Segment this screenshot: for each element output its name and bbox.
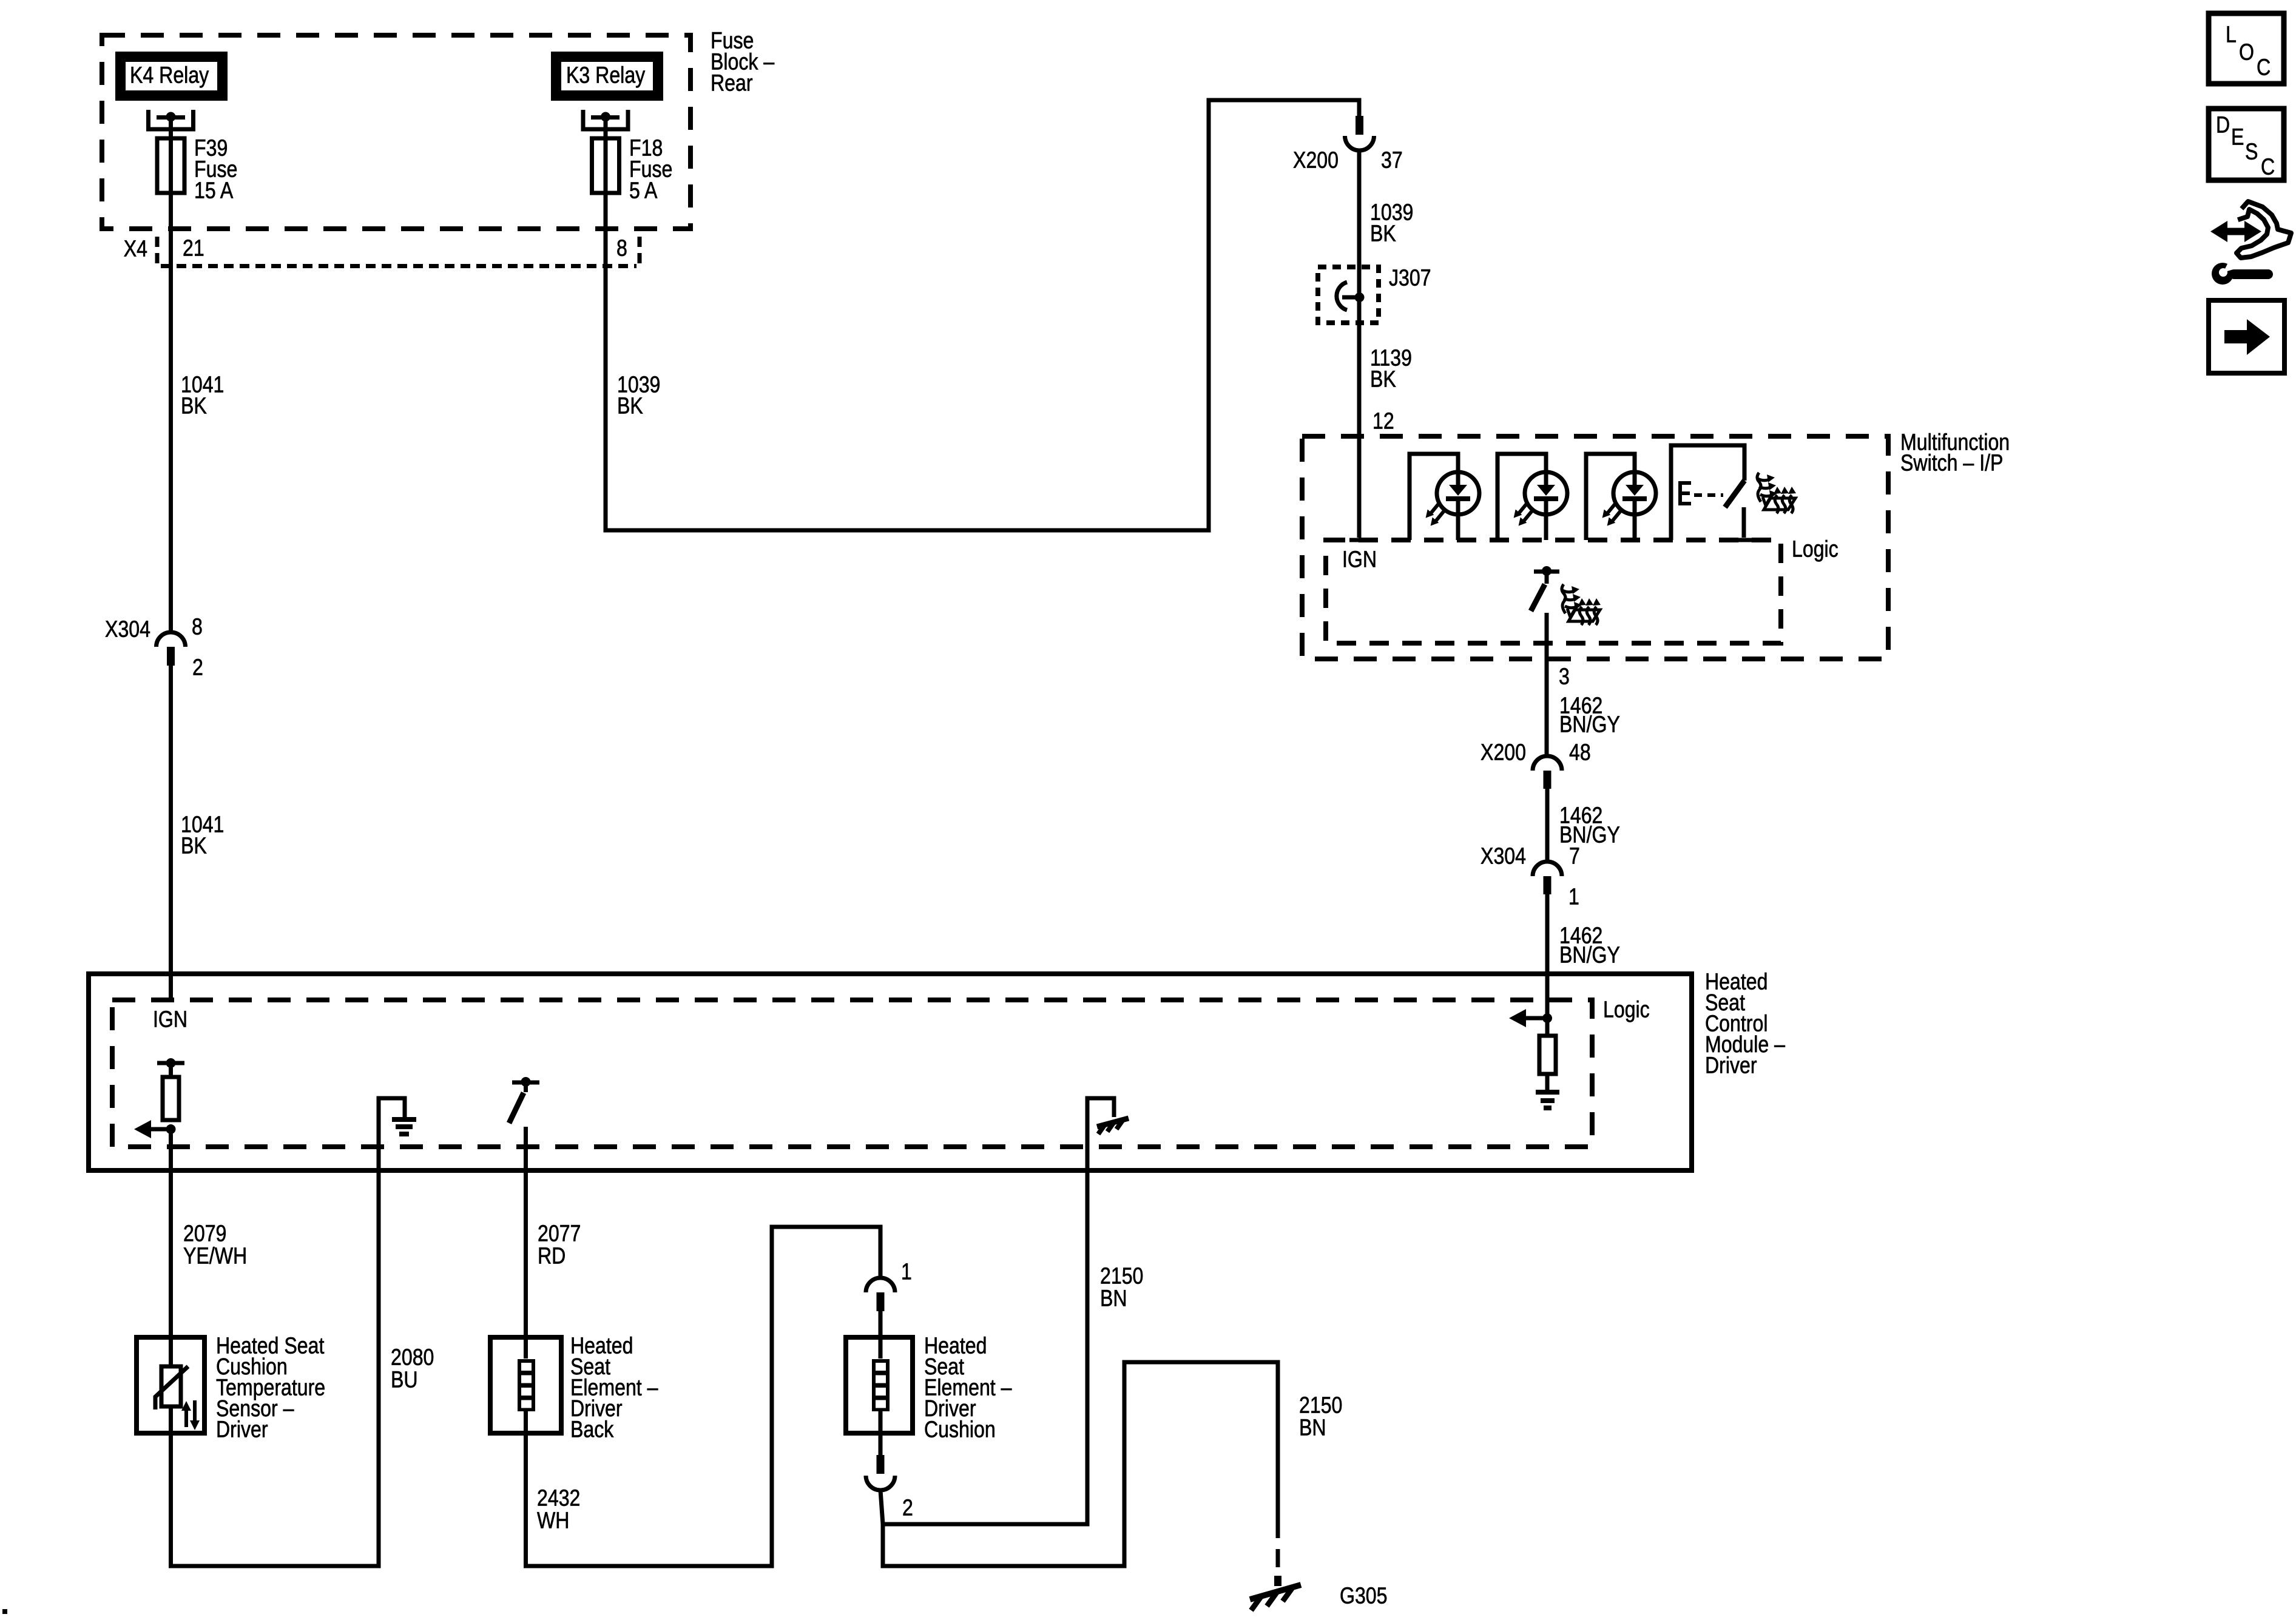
wire multifunction pin 3 to X200 pin 48 [1545,613,1549,756]
icon hand with double arrow and wrench [2210,201,2291,285]
svg-text:IGN: IGN [1342,547,1377,572]
wire 2079 YE/WH module to temp sensor [169,1129,173,1337]
svg-text:WH: WH [537,1508,569,1533]
LED 1 (multifunction switch) [1410,454,1479,540]
svg-text:J307: J307 [1389,265,1431,291]
svg-text:1: 1 [1568,884,1579,910]
svg-text:RD: RD [538,1243,566,1269]
heating element symbol (driver cushion) [879,1337,883,1359]
svg-text:YE/WH: YE/WH [183,1243,247,1269]
svg-text:7: 7 [1569,843,1580,869]
icon arrow box [2209,300,2284,373]
svg-text:BK: BK [1370,221,1396,246]
svg-text:2150: 2150 [1100,1263,1143,1289]
svg-text:1: 1 [901,1259,912,1284]
chassis ground (module internal) [1087,1098,1114,1170]
svg-text:BN/GY: BN/GY [1559,822,1620,848]
svg-text:BN/GY: BN/GY [1559,942,1620,968]
svg-text:2077: 2077 [538,1221,581,1246]
svg-text:O: O [2239,39,2254,65]
svg-text:Back: Back [570,1417,614,1442]
svg-text:21: 21 [183,235,204,261]
svg-text:X200: X200 [1293,147,1339,173]
svg-text:L: L [2226,22,2237,47]
svg-text:BN: BN [1299,1415,1326,1440]
icon DESC box [2209,109,2284,180]
svg-text:BK: BK [617,393,643,419]
wire 1039 BK X200 to J307 [1357,149,1362,538]
switch (module internal) [512,1081,539,1085]
ground (module internal) [379,1098,405,1170]
ground G305 [1274,1576,1281,1586]
connector pin 2 (cushion element) [879,1433,883,1455]
wire K3 relay to fuse F18 [604,117,608,193]
svg-text:37: 37 [1381,147,1403,173]
svg-text:C: C [2257,55,2271,80]
multifunction switch - I/P dashed box [1302,436,1888,659]
wire 2080 BU temp sensor to module [171,1173,379,1566]
wire 1041 BK fuse F39 to X304 [169,193,173,633]
wire 2150 BN to ground G305 [883,1362,1278,1566]
heater icon (logic switch) [1562,584,1601,625]
logic dashed box (module) [112,1000,1592,1147]
svg-text:3: 3 [1559,664,1570,689]
svg-text:K4 Relay: K4 Relay [130,62,209,88]
svg-text:48: 48 [1569,740,1591,765]
svg-text:BU: BU [391,1367,418,1393]
splice J307 [1318,267,1379,323]
svg-text:Driver: Driver [1705,1053,1757,1078]
svg-text:X4: X4 [124,236,147,262]
relay K4 contact [149,110,194,129]
relay K3 contact [583,110,628,129]
heated seat cushion temperature sensor - driver box [137,1337,204,1433]
svg-text:BK: BK [1370,366,1396,392]
wire 2432 WH driver back element to cushion element [526,1227,881,1566]
svg-text:8: 8 [192,614,203,640]
svg-text:BN: BN [1100,1286,1127,1311]
svg-text:BK: BK [181,833,207,859]
svg-text:Cushion: Cushion [924,1417,996,1442]
icon LOC box [2209,13,2284,84]
wire 1041 BK X304 to module [169,666,173,1000]
svg-text:Logic: Logic [1603,997,1650,1022]
page mark [2,1609,7,1614]
svg-text:8: 8 [616,235,627,261]
svg-text:Driver: Driver [216,1417,268,1442]
svg-text:2: 2 [902,1495,913,1521]
thermistor (temp sensor) [169,1337,173,1433]
svg-text:E: E [2231,124,2244,150]
fuse F18 5A [592,138,620,193]
wire 2150 BN module to cushion element pin 2 [883,1173,1087,1524]
svg-text:K3 Relay: K3 Relay [566,62,646,88]
svg-text:2080: 2080 [391,1345,434,1370]
fuse block - rear dashed box [102,35,690,229]
svg-text:2150: 2150 [1299,1393,1342,1418]
fuse F39 15A [157,138,184,193]
svg-text:BK: BK [181,393,207,419]
svg-text:X304: X304 [105,616,150,642]
svg-text:2079: 2079 [183,1221,226,1246]
heating element symbol (driver back) [524,1337,528,1359]
relay K4 [121,57,223,96]
LED 2 (multifunction switch) [1497,454,1567,540]
wire 1039 BK fuse F18 to X200 [606,100,1359,530]
svg-text:15 A: 15 A [194,178,234,203]
svg-text:Logic: Logic [1792,536,1838,562]
heated seat element - driver cushion box [846,1337,913,1433]
wire 2077 RD module to heated seat element driver back [524,1127,528,1337]
logic dashed box (multifunction switch) [1326,540,1781,643]
heater icon (upper switch) [1757,473,1796,513]
svg-text:X200: X200 [1481,740,1526,765]
wire 1462 BN/GY X200-48 to X304-7 [1545,789,1550,862]
svg-text:X304: X304 [1481,843,1526,869]
LED 3 (multifunction switch) [1586,454,1656,540]
svg-text:S: S [2245,139,2258,164]
heated seat element - driver back box [490,1337,561,1433]
temperature sense input (module) [157,1061,184,1065]
svg-text:5 A: 5 A [629,178,658,203]
switch S2 (multifunction switch, logic) [1534,570,1559,574]
svg-text:12: 12 [1373,408,1394,434]
svg-text:D: D [2216,112,2230,138]
logic input resistor to ground (module right) [1542,1013,1552,1023]
connector X4 dotted line [161,264,636,268]
svg-text:Rear: Rear [711,70,753,96]
wire 1462 BN/GY X304-1 to module [1545,894,1550,1018]
svg-text:G305: G305 [1340,1583,1388,1609]
heated seat control module - driver box [89,974,1692,1170]
relay K3 [556,57,658,96]
svg-text:Switch – I/P: Switch – I/P [1900,450,2003,476]
wire K4 relay to fuse F39 [169,117,173,193]
svg-text:C: C [2261,154,2275,180]
svg-text:2: 2 [192,655,203,680]
switch S1 (multifunction switch, upper) [1671,445,1744,540]
svg-text:IGN: IGN [153,1007,187,1032]
svg-text:2432: 2432 [537,1485,580,1511]
svg-text:BN/GY: BN/GY [1559,712,1620,737]
